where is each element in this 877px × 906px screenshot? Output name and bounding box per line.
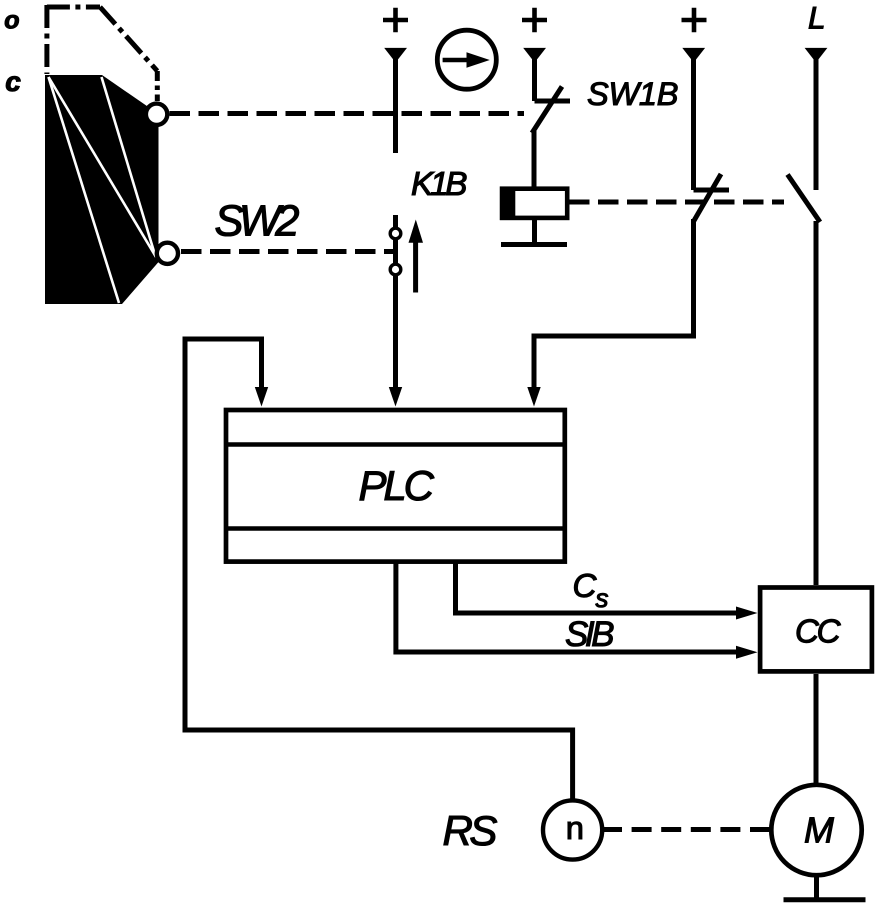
svg-text:C: C <box>573 568 598 605</box>
svg-text:c: c <box>5 66 21 97</box>
svg-text:SW2: SW2 <box>215 197 300 245</box>
svg-text:o: o <box>4 7 19 35</box>
svg-text:SW1B: SW1B <box>587 75 679 112</box>
svg-text:RS: RS <box>443 807 498 854</box>
svg-text:M: M <box>804 811 834 851</box>
svg-text:SIB: SIB <box>565 615 615 654</box>
svg-text:s: s <box>596 585 609 613</box>
svg-text:K1B: K1B <box>411 166 468 203</box>
svg-text:L: L <box>808 0 826 36</box>
svg-text:n: n <box>566 809 584 846</box>
svg-text:CC: CC <box>795 613 842 650</box>
svg-text:PLC: PLC <box>359 462 435 509</box>
